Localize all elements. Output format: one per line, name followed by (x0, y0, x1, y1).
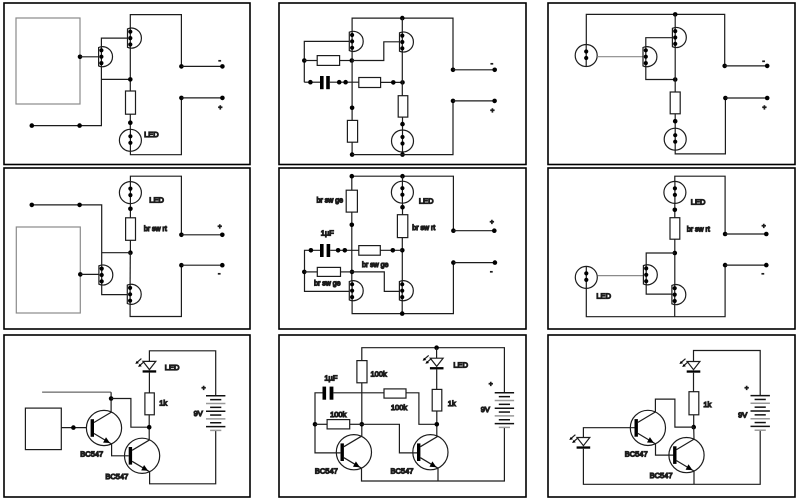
node terminal 1 (451, 228, 456, 233)
svg-text:BC547: BC547 (315, 467, 338, 476)
terminal 1 end (220, 233, 225, 238)
LED D1 (135, 359, 156, 373)
CELL6 (548, 168, 795, 329)
svg-text:br sw ge: br sw ge (362, 262, 389, 269)
node junction cap row (400, 248, 405, 253)
transistor Q1 (99, 47, 113, 67)
wire top rail (694, 351, 761, 396)
wire Q2 emitter (674, 304, 676, 317)
svg-text:100k: 100k (391, 403, 408, 412)
node terminal 1 (179, 64, 184, 69)
svg-text:br sw rt: br sw rt (144, 226, 167, 233)
wire R3 right lead (350, 423, 362, 425)
CELL8 (279, 335, 526, 497)
svg-text:LED: LED (691, 197, 706, 206)
terminal 1 end (492, 228, 497, 233)
wire LED to terminal 2 (130, 98, 181, 155)
wire LED to terminal 2 (675, 98, 725, 154)
svg-text:-: - (490, 269, 492, 276)
wire T1 emitter to T2 base (112, 444, 129, 456)
resistor R2 100k (384, 389, 406, 398)
node junction (435, 422, 440, 427)
node junction (350, 58, 355, 63)
wire D2 top to T1 base (583, 428, 636, 438)
wire Q1 collector to Q2 base (646, 38, 673, 48)
wire T1 emitter to T2 base (656, 444, 675, 455)
svg-text:+: + (490, 219, 494, 226)
wire LED to R4 (436, 369, 438, 389)
wire T2 emitter bottom rail (150, 430, 216, 483)
node junction (400, 205, 405, 210)
wire terminal 2 (453, 262, 495, 264)
node junction (128, 77, 133, 82)
node on box edge (78, 272, 83, 277)
wire Q2 top (674, 14, 676, 28)
wire R3 right lead (380, 249, 402, 251)
wire Q2 collector to terminal (130, 15, 181, 67)
wire connector (102, 78, 131, 80)
node end (30, 123, 35, 128)
node a (337, 80, 342, 85)
node junction (673, 251, 678, 256)
svg-text:LED: LED (144, 130, 159, 139)
wire junction to R column (111, 399, 149, 428)
wire Q2 emitter (401, 300, 403, 314)
wire terminal 1 (725, 233, 766, 235)
wire junction to Q1 column (102, 252, 131, 254)
resistor R1 100k (357, 361, 367, 383)
wire base T1 (61, 427, 86, 429)
wire to Q2 base (352, 42, 400, 61)
node top rail mid (400, 174, 405, 179)
node top rail (434, 345, 439, 350)
svg-text:BC547: BC547 (625, 449, 648, 458)
terminal 1 end (492, 68, 497, 73)
wire Q1 emitter (646, 66, 675, 80)
node R4 tap (302, 270, 307, 275)
svg-text:9V: 9V (738, 410, 747, 419)
wire terminal 2 (181, 97, 222, 99)
CELL2 (279, 3, 526, 165)
node on column (350, 106, 355, 111)
node terminal 2 (451, 260, 456, 265)
wire R2 right lead (381, 81, 403, 83)
wire terminal 1 (181, 234, 222, 236)
node bottom left (350, 152, 355, 157)
wire LED top (436, 348, 438, 359)
CELL5 (279, 168, 526, 329)
resistor R1 (346, 190, 357, 212)
wire Q2 emitter to terminal 2 (130, 265, 181, 316)
wire LED to resistor (674, 203, 676, 217)
battery 9V (206, 396, 225, 431)
CELL3 (548, 3, 795, 165)
node junction (673, 77, 678, 82)
transistor Q1 (349, 281, 363, 301)
svg-text:+: + (218, 104, 222, 111)
wire R3 left lead (315, 423, 327, 425)
node bottom junction (400, 311, 405, 316)
svg-text:1k: 1k (448, 399, 456, 408)
sensor box B1 (16, 18, 80, 104)
wire LED to bottom (402, 152, 404, 155)
node junction Q2 column (400, 80, 405, 85)
wire top rail (149, 351, 215, 396)
wire left rail (32, 205, 102, 266)
CELL7 (4, 335, 250, 497)
transistor Q1 (643, 265, 657, 285)
node junction (128, 207, 133, 212)
svg-text:br sw rt: br sw rt (412, 225, 435, 232)
svg-text:+: + (218, 223, 222, 230)
svg-text:1µF: 1µF (321, 228, 334, 237)
node junction (128, 250, 133, 255)
svg-text:+: + (762, 223, 766, 230)
wire bottom rail (352, 101, 453, 155)
node terminal 2 (723, 263, 728, 268)
wire LED top to terminal 1 (675, 176, 725, 234)
svg-text:BC547: BC547 (80, 449, 103, 458)
wire Q1 emitter down-left (32, 66, 102, 126)
wire antenna down (110, 392, 112, 412)
wire T1 collector to junction (655, 399, 693, 427)
svg-text:LED: LED (149, 196, 164, 205)
node junction R4 row (350, 270, 355, 275)
resistor R1 (317, 56, 339, 66)
transistor T1 BC547 (86, 410, 121, 445)
LED D1 (664, 181, 686, 203)
wire Q1 base loop (304, 41, 349, 82)
wire T2 emitter (693, 471, 695, 484)
wire cap row left (315, 393, 340, 453)
resistor R1 (126, 91, 136, 114)
svg-text:BC547: BC547 (105, 472, 128, 481)
node b (343, 248, 348, 253)
wire T2 emitter (437, 468, 439, 481)
wire resistor to LED (129, 114, 131, 129)
node top rail (400, 16, 405, 21)
wire LED to resistor (129, 204, 131, 218)
wire cap row left (304, 81, 320, 83)
resistor R3 100k (327, 420, 350, 429)
wire base Q1 (598, 275, 644, 277)
wire T2 collector (693, 427, 695, 439)
wire LED to resistor (693, 373, 695, 392)
capacitor C1 (320, 244, 324, 257)
wire R1 to junction (693, 415, 695, 427)
svg-text:br sw ge: br sw ge (314, 281, 341, 288)
wire LED top (402, 176, 404, 181)
node junction (360, 422, 365, 427)
wire terminal 2 (725, 264, 766, 266)
node mid (77, 123, 82, 128)
transistor T2 BC547 (125, 438, 160, 473)
node terminal 2 (179, 263, 184, 268)
transistor Q2 (672, 28, 686, 48)
terminal 1 end (765, 64, 770, 69)
transistor Q2 (128, 28, 142, 48)
transistor Q1 (349, 31, 363, 51)
terminal 1 end (764, 232, 769, 237)
antenna wire (42, 391, 111, 393)
LED D1 (423, 355, 444, 369)
terminal 2 end (493, 260, 498, 265)
wire terminal 2 (181, 264, 222, 266)
node top rail left (350, 174, 355, 179)
svg-text:-: - (491, 61, 493, 68)
capacitor C1 (320, 76, 324, 89)
svg-text:1k: 1k (159, 398, 167, 407)
svg-text:-: - (219, 57, 221, 64)
wire Q1 emitter bottom rail (352, 263, 453, 314)
wire terminal 1 (181, 65, 222, 67)
wire LED to R2 (402, 203, 404, 215)
wire R4 to LED (402, 117, 404, 130)
node junction (147, 425, 152, 430)
LED D1 (679, 359, 700, 373)
terminal 2 end (492, 99, 497, 104)
wire to Q2 base (352, 272, 399, 292)
wire terminal 1 (725, 65, 768, 67)
wire sensor bottom rail (586, 265, 725, 317)
wire cap to R2 (333, 392, 384, 394)
transistor T2 BC547 (669, 438, 704, 473)
transistor Q2 (400, 32, 414, 52)
terminal 2 end (220, 263, 225, 268)
wire Q2 top (401, 18, 403, 33)
resistor R2 (397, 215, 407, 238)
node R1 tap (302, 58, 307, 63)
svg-text:100k: 100k (330, 410, 347, 419)
svg-text:-: - (763, 58, 765, 65)
wire top rail (586, 14, 724, 66)
LED D1 (392, 130, 414, 152)
node terminal 2 (723, 96, 728, 101)
svg-text:BC547: BC547 (650, 471, 673, 480)
wire cap to R3 (330, 249, 359, 251)
svg-text:-: - (218, 271, 220, 278)
terminal 2 end (220, 96, 225, 101)
node end (30, 203, 35, 208)
resistor R1 1k (689, 392, 699, 415)
wire T1 emitter bottom rail (362, 427, 505, 481)
wire Q2 emitter column (674, 47, 676, 92)
node cap left (309, 248, 314, 253)
wire top rail (362, 348, 505, 393)
LED D1 (119, 182, 141, 204)
transistor T1 BC547 (336, 435, 371, 470)
wire cap to R2 (330, 81, 359, 83)
wire base Q1 (597, 56, 643, 58)
wire R1 to LED (674, 114, 676, 128)
terminal 2 end (764, 263, 769, 268)
wire R2 to Q2 top (401, 238, 403, 282)
wire terminal 2 (453, 100, 495, 102)
wire R3 to bottom (351, 142, 353, 154)
node on base wire (71, 425, 76, 430)
node top rail (673, 12, 678, 17)
node junction (400, 122, 405, 127)
resistor R4 (317, 267, 340, 276)
node terminal 2 (451, 99, 456, 104)
node on box edge (78, 55, 83, 60)
LED sensor D2 (575, 266, 597, 288)
svg-text:LED: LED (419, 196, 434, 205)
svg-text:+: + (763, 105, 767, 112)
resistor R4 1k (432, 389, 442, 411)
wire Q1 emitter to Q2 base (102, 284, 128, 294)
node bottom junction (400, 152, 405, 157)
resistor R1 (670, 92, 680, 114)
wire Q1 column (351, 51, 353, 121)
LED D1 (119, 129, 141, 151)
battery 9V (495, 393, 514, 428)
sensor box B1 (25, 408, 61, 450)
svg-text:+: + (202, 385, 206, 392)
wire Q1 collector to Q2 base (101, 38, 127, 47)
svg-text:100k: 100k (371, 369, 388, 378)
svg-text:LED: LED (165, 363, 180, 372)
terminal 1 end (220, 64, 225, 69)
wire D2 bottom rail (583, 430, 760, 484)
wire R1 right lead (340, 60, 352, 62)
wire R1 to junction (148, 415, 150, 440)
svg-text:br sw ge: br sw ge (317, 197, 344, 204)
node cap left (308, 80, 313, 85)
wire terminal 1 (453, 230, 494, 232)
capacitor C1 (323, 387, 327, 400)
node b (343, 80, 348, 85)
svg-text:9V: 9V (194, 409, 203, 418)
transistor Q2 (672, 285, 686, 305)
resistor R2 (359, 78, 381, 88)
battery 9V (751, 396, 770, 431)
wire base Q1 (80, 273, 99, 275)
LED D2 (569, 435, 590, 449)
wire base Q1 (80, 56, 99, 58)
svg-text:1k: 1k (703, 400, 711, 409)
svg-text:9V: 9V (481, 405, 490, 414)
node terminal 1 (451, 68, 456, 73)
wire LED to resistor (148, 373, 150, 393)
wire LED top to terminal 1 (130, 176, 181, 235)
node terminal 1 (179, 233, 184, 238)
node junction (691, 425, 696, 430)
svg-text:+: + (491, 108, 495, 115)
transistor T1 BC547 (630, 410, 665, 445)
wire R2 to junction (406, 393, 437, 425)
wire junction to Q1 (646, 253, 675, 266)
node c (391, 80, 396, 85)
node a (336, 248, 341, 253)
CELL4 (4, 168, 250, 329)
svg-text:BC547: BC547 (391, 467, 414, 476)
sensor box B1 (16, 227, 80, 313)
node terminal 2 (179, 96, 184, 101)
wire to T2 base (362, 424, 417, 453)
node junction (673, 119, 678, 124)
transistor T2 BC547 (413, 435, 448, 470)
wire R1 to Q2 column (674, 239, 676, 285)
wire R4 right lead (341, 271, 353, 273)
LED D1 (664, 128, 686, 150)
resistor R3 (347, 120, 357, 142)
transistor Q1 (643, 47, 657, 67)
wire cap row left (305, 250, 350, 291)
wire terminal 1 (453, 69, 495, 71)
svg-text:+: + (745, 385, 749, 392)
LED sensor D2 (575, 45, 597, 67)
wire Q2 emitter column (401, 51, 403, 95)
node junction (673, 208, 678, 213)
node terminal 1 (722, 64, 727, 69)
wire Q2 emitter to resistor (129, 47, 131, 91)
svg-text:-: - (762, 271, 764, 278)
transistor Q2 (127, 284, 141, 304)
LED D1 (391, 181, 413, 203)
transistor Q2 (399, 281, 413, 301)
wire top rail (352, 176, 454, 231)
resistor R3 (359, 246, 381, 256)
svg-text:br sw rt: br sw rt (687, 226, 710, 233)
wire top rail (352, 18, 453, 70)
node c (391, 248, 396, 253)
resistor R1 (670, 218, 680, 240)
wire R1 to junction (129, 240, 131, 252)
node on column (350, 223, 355, 228)
wire terminal 2 (725, 97, 767, 99)
node mid (77, 203, 82, 208)
node terminal 1 (723, 232, 728, 237)
resistor R1 (126, 218, 136, 241)
wire R4 to T2 collector (436, 411, 438, 436)
wire R1 left lead (304, 60, 317, 62)
svg-text:+: + (489, 381, 493, 388)
wire Q1 emitter to Q2 base (646, 284, 672, 294)
node junction (109, 396, 114, 401)
svg-text:LED: LED (453, 361, 468, 370)
resistor R1 1k (145, 393, 154, 415)
transistor Q1 (99, 265, 113, 285)
wire R4 left lead (304, 271, 317, 273)
CELL1 (4, 3, 250, 165)
svg-text:1µF: 1µF (324, 373, 337, 382)
svg-text:LED: LED (596, 291, 611, 300)
wire R1 to Q1 column (351, 212, 353, 281)
wire junction to Q2 top (129, 253, 131, 285)
node junction (128, 120, 133, 125)
terminal 2 end (765, 96, 770, 101)
node R3 tap (313, 422, 318, 427)
CELL9 (548, 335, 795, 497)
resistor R4 (398, 96, 408, 117)
wire R1 down to junction (361, 383, 363, 437)
